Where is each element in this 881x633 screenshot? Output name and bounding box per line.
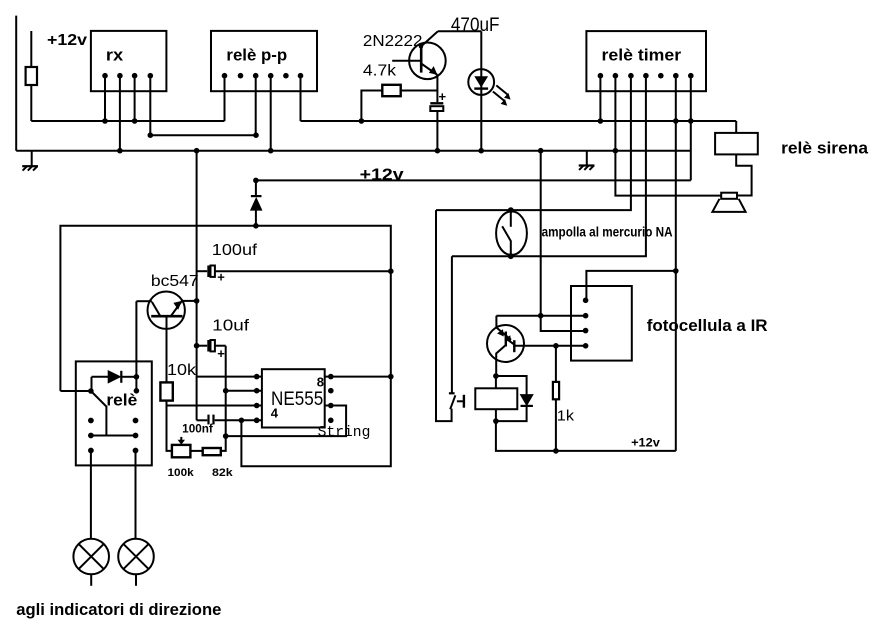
svg-text:100k: 100k	[168, 467, 195, 479]
pin pp3	[253, 73, 259, 79]
diode D4 flyback	[496, 376, 527, 395]
IC U1 NE555	[262, 369, 325, 427]
pin u-right3	[226, 406, 346, 437]
wire bc547 to relay	[135, 301, 137, 391]
relay K2 coil	[495, 376, 497, 388]
transistor Q2 bc547	[148, 292, 185, 329]
svg-text:+: +	[217, 346, 225, 361]
svg-text:82k: 82k	[212, 467, 234, 479]
pin t3	[628, 73, 634, 79]
label 470uF	[451, 15, 500, 36]
resistor R6 82k	[190, 450, 202, 452]
wire base down	[166, 316, 168, 382]
svg-text:ampolla al mercurio NA: ampolla al mercurio NA	[542, 224, 673, 239]
svg-text:bc547: bc547	[151, 273, 199, 290]
pin t4	[643, 73, 649, 79]
wire into relay coil	[60, 390, 91, 392]
capacitor C2 100uf	[197, 270, 208, 272]
pin pp4	[268, 73, 274, 79]
diode D1	[255, 180, 257, 196]
relay K3 relè sirena	[735, 121, 737, 133]
lamp L1	[90, 451, 92, 539]
capacitor C3 10uf	[197, 345, 208, 347]
svg-text:100nf: 100nf	[182, 424, 213, 436]
pin pp6	[298, 73, 304, 79]
svg-text:relè p-p: relè p-p	[226, 45, 287, 64]
pin t6	[673, 73, 679, 79]
svg-text:fotocellula a IR: fotocellula a IR	[647, 316, 768, 335]
pin u-right1 pin8	[325, 376, 391, 378]
svg-text:+12v: +12v	[360, 165, 405, 184]
box relè p-p	[211, 31, 317, 91]
wire to pin3	[167, 405, 262, 407]
relay switch arm	[91, 391, 107, 436]
label String	[318, 424, 371, 441]
resistor R3 10k	[160, 382, 172, 400]
resistor R5 1k	[555, 346, 557, 382]
svg-text:+: +	[217, 269, 225, 284]
pin t5	[658, 73, 664, 79]
svg-text:relè timer: relè timer	[602, 45, 682, 64]
pin f4	[583, 343, 589, 349]
svg-text:10uf: 10uf	[212, 318, 249, 335]
svg-text:8: 8	[317, 375, 324, 390]
svg-text:100uf: 100uf	[212, 242, 258, 259]
svg-text:4: 4	[271, 405, 279, 420]
svg-text:+12v: +12v	[631, 435, 660, 449]
wire +12v segment B	[301, 120, 737, 122]
resistor R2 4.7k	[361, 91, 382, 122]
fuse F1	[30, 31, 32, 67]
pin u-left1	[197, 376, 262, 378]
svg-text:2N2222: 2N2222	[363, 33, 423, 50]
speaker LS1	[721, 193, 737, 199]
pin u-left2	[226, 390, 262, 392]
lamp L2	[135, 451, 137, 539]
pin t7	[688, 73, 694, 79]
pin rx2	[117, 73, 123, 79]
transistor Q1 2N2222	[409, 43, 446, 80]
pin pp2	[238, 73, 244, 79]
wire ground bus	[16, 150, 691, 152]
contact bridge	[91, 435, 136, 437]
pin f1	[583, 298, 589, 304]
pin u-left3	[254, 403, 260, 409]
capacitor C1 470uF	[436, 75, 438, 102]
label +12v top-left	[47, 32, 87, 49]
pushbutton S2	[436, 210, 452, 421]
svg-text:agli indicatori di direzione: agli indicatori di direzione	[16, 600, 221, 619]
svg-text:+: +	[439, 89, 447, 104]
wire 10uf down	[225, 346, 227, 436]
caption	[16, 600, 221, 619]
svg-text:relè: relè	[106, 391, 137, 410]
LED D2	[480, 31, 482, 150]
pin pp5	[283, 73, 289, 79]
svg-text:+12v: +12v	[47, 32, 87, 49]
diode D3 inside relay	[92, 376, 109, 378]
pin u-right4	[328, 418, 334, 424]
pin f2	[583, 313, 589, 319]
wire +12v segment A	[31, 120, 224, 122]
pin u-left4	[254, 418, 260, 424]
pin rx3	[132, 73, 138, 79]
capacitor C4 100nf	[197, 419, 208, 421]
wire loop frame (top/left/right/bottom)	[60, 226, 390, 466]
ground (left)	[31, 151, 33, 166]
svg-text:10k: 10k	[167, 362, 197, 379]
pin rx1	[102, 73, 108, 79]
wire left +12v rail	[15, 16, 17, 151]
box relè timer	[586, 31, 706, 91]
svg-text:rx: rx	[106, 45, 124, 64]
pin pp1	[222, 73, 228, 79]
mercury switch S1 ampolla	[496, 211, 527, 255]
svg-text:4.7k: 4.7k	[363, 63, 397, 80]
pin t2	[613, 73, 619, 79]
wire bus to fotocellula	[541, 151, 586, 331]
potentiometer R4 100k	[172, 445, 191, 457]
svg-text:NE555: NE555	[271, 389, 323, 410]
svg-text:String: String	[318, 424, 371, 441]
pin rx4	[148, 73, 154, 79]
wire collector top	[438, 30, 481, 32]
wire +12v bottom	[496, 421, 676, 451]
box relè K1	[76, 361, 152, 465]
svg-text:470uF: 470uF	[451, 15, 500, 36]
pin f3	[583, 328, 589, 334]
box fotocellula a IR	[571, 286, 632, 361]
pin u-right2	[328, 388, 334, 394]
svg-text:relè sirena: relè sirena	[781, 138, 868, 157]
box rx	[91, 31, 166, 91]
main vertical rail	[196, 151, 198, 421]
phototransistor Q3	[487, 325, 524, 362]
contacts	[88, 418, 94, 424]
svg-text:1k: 1k	[557, 408, 575, 425]
wire +12v mid rail	[256, 179, 691, 181]
pin t1	[598, 73, 604, 79]
ground (right)	[586, 151, 588, 166]
